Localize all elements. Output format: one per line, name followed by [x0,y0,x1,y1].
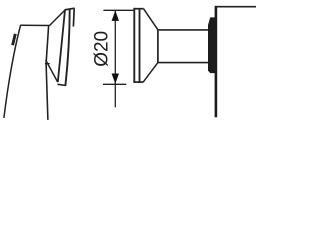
perspective view: head front face line [72,8,75,26]
perspective view: bottom taper diagonal [46,60,58,82]
side view: head top edge [134,8,144,10]
perspective view: head bottom cap [58,84,67,85]
perspective view: neck bottom tick [45,63,50,65]
dimension: bottom arrowhead [112,74,119,84]
svg-text:Ø20: Ø20 [92,31,113,67]
side view: wall line vertical [215,6,218,117]
side view: neck bottom line [158,62,211,64]
perspective view: mounting plate sliver [13,34,16,45]
perspective view: wall back edge (long slanted line) [4,25,21,118]
dimension: vertical dimension line [114,11,116,108]
side view: wall top edge [215,6,256,8]
side view: neck front edge vertical [157,30,159,63]
perspective view: wall front edge / neck base vertical [46,26,49,120]
side view: bottom taper diagonal [143,63,158,82]
dimension: top extension line [103,9,133,11]
perspective view: top taper diagonal [49,10,65,26]
perspective view: head cone base edge (left face line) [58,10,65,82]
perspective view: head rim middle line (short) [65,9,69,86]
dimension: bottom extension line [103,83,126,85]
perspective view: head top cap [65,8,75,10]
perspective view: neck top line [20,24,49,26]
side view: head bottom edge [134,81,144,83]
side view: top taper diagonal [144,9,158,30]
side view: head rim line [139,8,141,82]
dimension: top arrowhead [112,11,119,21]
side view: head front face line [133,8,135,83]
side view: mounting plate (filled) [208,17,217,73]
side view: neck top line [158,29,211,31]
